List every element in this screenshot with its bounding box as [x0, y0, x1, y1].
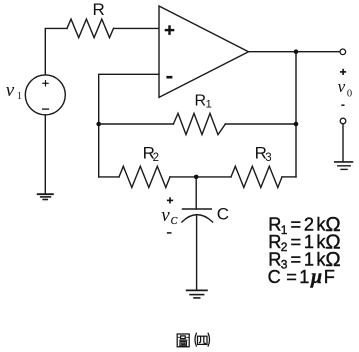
svg-text:1: 1 [206, 99, 212, 111]
svg-text:R: R [93, 0, 105, 19]
svg-text:2: 2 [153, 152, 159, 164]
svg-text:ν: ν [338, 77, 346, 96]
svg-text:ν: ν [161, 205, 170, 226]
svg-text:2: 2 [281, 240, 288, 254]
svg-text:1: 1 [299, 267, 309, 287]
svg-text:C: C [217, 204, 229, 223]
svg-text:0: 0 [347, 89, 352, 100]
svg-text:R: R [195, 93, 207, 110]
svg-text:3: 3 [265, 152, 271, 164]
svg-text:C: C [171, 216, 178, 227]
svg-text:=: = [286, 267, 297, 287]
svg-text:1: 1 [17, 91, 22, 102]
svg-text:μ: μ [310, 266, 322, 288]
svg-text:C: C [268, 267, 281, 287]
svg-text:1: 1 [281, 223, 288, 237]
svg-text:F: F [324, 267, 335, 287]
svg-text:ν: ν [6, 80, 15, 101]
